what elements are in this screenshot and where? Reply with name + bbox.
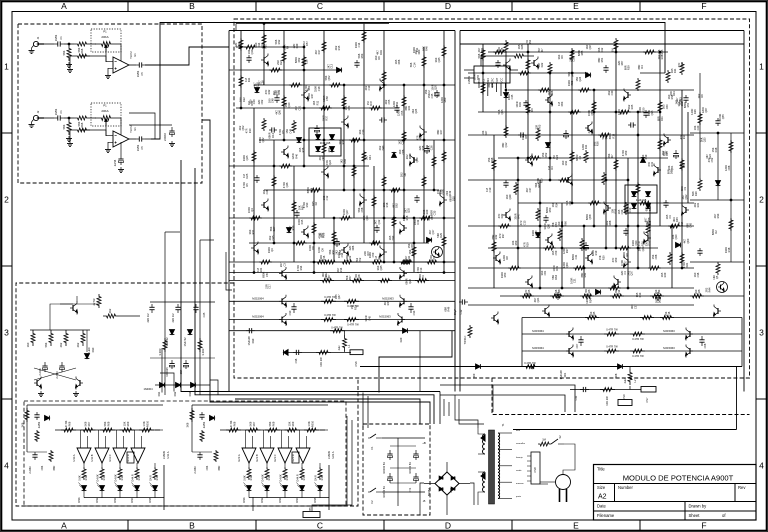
svg-text:R25: R25 — [527, 289, 531, 294]
svg-text:R4: R4 — [640, 65, 644, 69]
svg-text:D09: D09 — [472, 373, 476, 378]
right amp transistor — [647, 235, 649, 241]
svg-text:1000/25: 1000/25 — [165, 367, 169, 377]
svg-text:R22: R22 — [348, 255, 352, 260]
svg-text:U1: U1 — [133, 53, 137, 57]
svg-text:D6: D6 — [403, 173, 407, 177]
svg-text:R08: R08 — [107, 421, 111, 426]
svg-text:R20: R20 — [601, 255, 605, 260]
svg-text:R60: R60 — [443, 97, 447, 102]
svg-text:R67: R67 — [620, 60, 624, 65]
right amp resistor — [602, 172, 606, 185]
svg-text:R13: R13 — [267, 475, 271, 480]
svg-text:R56: R56 — [647, 217, 651, 222]
svg-text:C14: C14 — [412, 62, 416, 67]
wire ch2 out to right amp — [151, 23, 665, 140]
svg-text:1N4148: 1N4148 — [247, 336, 251, 346]
wire ch1 out to left amp — [145, 47, 229, 65]
svg-text:C51: C51 — [265, 272, 269, 277]
svg-text:R06: R06 — [68, 421, 72, 426]
svg-text:R20: R20 — [641, 107, 645, 112]
preamp channel L (J1, C1, R1, P1 20KA, op-amp U1 TL072, C5) — [33, 41, 38, 46]
svg-text:3K6: 3K6 — [186, 422, 190, 427]
svg-text:Q50: Q50 — [534, 230, 538, 235]
svg-text:Drawn by: Drawn by — [689, 504, 708, 509]
left amp capacitor — [296, 210, 298, 213]
svg-text:D30: D30 — [91, 347, 95, 352]
mains plug P2 and connector — [531, 452, 540, 484]
svg-text:R27: R27 — [623, 260, 627, 265]
svg-text:R67: R67 — [436, 92, 440, 97]
svg-text:D18: D18 — [714, 147, 718, 152]
svg-text:LM339: LM339 — [162, 450, 166, 458]
svg-text:R53: R53 — [682, 163, 686, 168]
svg-text:R8: R8 — [505, 256, 509, 260]
svg-text:D52: D52 — [528, 39, 532, 44]
svg-text:Q30: Q30 — [674, 234, 678, 239]
right amp capacitor — [525, 100, 527, 103]
svg-text:BR25A: BR25A — [427, 488, 431, 496]
left amp resistor — [442, 235, 446, 248]
svg-text:D33: D33 — [391, 235, 395, 240]
svg-text:Rev: Rev — [738, 485, 746, 490]
svg-text:Q47: Q47 — [337, 294, 341, 299]
left amp resistor — [339, 216, 352, 220]
svg-text:10000/ 63: 10000/ 63 — [382, 462, 386, 474]
svg-text:22/63: 22/63 — [37, 421, 41, 428]
svg-text:Q25: Q25 — [414, 108, 418, 113]
left amp resistor — [342, 95, 346, 108]
svg-text:0.47R 7W: 0.47R 7W — [606, 328, 618, 332]
left amp wire — [363, 24, 365, 244]
svg-text:D22: D22 — [540, 62, 544, 67]
right amp diode — [536, 233, 541, 238]
svg-text:R11: R11 — [660, 116, 664, 121]
left amp resistor — [389, 188, 402, 192]
svg-text:D19: D19 — [644, 154, 648, 159]
svg-text:1N4148: 1N4148 — [320, 141, 331, 145]
wire preamp rail V- down — [195, 168, 434, 424]
svg-text:D21: D21 — [685, 262, 689, 267]
right amp capacitor — [545, 215, 547, 218]
right amp resistor — [608, 286, 621, 290]
svg-text:C38: C38 — [401, 139, 405, 144]
svg-text:Q60: Q60 — [686, 238, 690, 243]
svg-text:D53: D53 — [560, 101, 564, 106]
svg-text:D40: D40 — [381, 145, 385, 150]
feedback loop wire ch2 — [129, 113, 155, 139]
svg-text:R54: R54 — [588, 298, 592, 303]
right amp resistor — [543, 246, 556, 250]
left amp wire — [229, 69, 339, 71]
svg-text:TL072: TL072 — [129, 51, 133, 59]
svg-text:Q4: Q4 — [250, 208, 254, 212]
svg-text:D61: D61 — [480, 47, 484, 52]
right amp wire — [517, 158, 519, 268]
svg-text:56K: 56K — [77, 47, 81, 52]
svg-text:Q26: Q26 — [408, 278, 412, 283]
svg-text:MJ15063: MJ15063 — [663, 329, 675, 333]
right amp wire — [498, 157, 668, 159]
right amp resistor — [646, 222, 650, 235]
right amp transistor — [627, 92, 629, 98]
svg-text:D66: D66 — [408, 154, 412, 159]
svg-text:D01: D01 — [563, 372, 567, 377]
svg-text:R50: R50 — [503, 272, 507, 277]
svg-text:Q52: Q52 — [327, 75, 331, 80]
capacitor C16 22/16 — [120, 142, 122, 155]
left amp resistor — [282, 95, 286, 108]
right amp output stage MJ15064/MJ15063 with 0.47R 7W emitter resistors — [522, 317, 742, 319]
right amp capacitor — [675, 150, 677, 154]
svg-text:R14: R14 — [120, 475, 124, 480]
svg-text:3.30R: 3.30R — [158, 348, 162, 355]
right amp resistor — [548, 62, 552, 75]
svg-text:C40: C40 — [610, 90, 614, 95]
left amp capacitor — [269, 129, 272, 131]
svg-text:Q37: Q37 — [630, 270, 634, 275]
left amp resistor — [322, 142, 326, 155]
svg-text:G4.R: G4.R — [314, 475, 318, 481]
svg-text:C35: C35 — [432, 210, 436, 215]
svg-text:Filename: Filename — [597, 513, 615, 518]
right amp resistor — [588, 201, 601, 205]
svg-text:C45: C45 — [689, 222, 693, 227]
svg-text:R29: R29 — [663, 272, 667, 277]
right amp wire — [637, 112, 639, 268]
right amp transistor — [607, 205, 609, 211]
svg-text:D08: D08 — [614, 373, 618, 378]
svg-text:R27: R27 — [439, 129, 443, 134]
svg-text:R57: R57 — [348, 275, 352, 280]
svg-text:5.6K: 5.6K — [78, 475, 82, 481]
svg-text:C13: C13 — [628, 207, 632, 212]
left amp resistor — [262, 118, 266, 131]
left amp resistor — [252, 150, 256, 163]
svg-text:Q41: Q41 — [650, 161, 654, 166]
right amp capacitor — [657, 292, 659, 296]
svg-text:20KA: 20KA — [101, 35, 108, 39]
left amp resistor — [382, 70, 386, 83]
svg-text:Number: Number — [618, 485, 633, 490]
left amp wire — [249, 242, 429, 244]
right amp resistor — [558, 228, 562, 241]
right amp capacitor — [518, 134, 521, 136]
protection network 1N4742 / 1N4004 — [164, 232, 166, 395]
svg-text:Q10: Q10 — [287, 102, 291, 107]
left amp diode — [427, 238, 432, 243]
right amp resistor — [658, 138, 662, 151]
svg-text:D38: D38 — [490, 157, 494, 162]
svg-text:2: 2 — [759, 195, 764, 205]
svg-text:Q46: Q46 — [285, 182, 289, 187]
left amp wire — [236, 107, 399, 109]
right amp wire — [615, 44, 617, 248]
left amp wire — [343, 85, 345, 190]
svg-text:TL072: TL072 — [129, 125, 133, 133]
bridge rectifier BR1 BR25A — [435, 472, 459, 495]
svg-text:R34: R34 — [554, 202, 558, 207]
svg-text:C26: C26 — [430, 145, 434, 150]
right amp capacitor — [497, 60, 499, 63]
svg-text:TIP41C: TIP41C — [463, 335, 467, 344]
svg-text:R30: R30 — [640, 241, 644, 246]
left amp resistor — [279, 164, 292, 168]
left amp wire — [403, 85, 405, 218]
svg-text:R65: R65 — [660, 49, 664, 54]
svg-text:R9: R9 — [377, 256, 381, 260]
svg-text:Q56: Q56 — [546, 223, 550, 228]
svg-text:2.2/63: 2.2/63 — [193, 466, 197, 474]
left amp resistor — [372, 195, 376, 208]
svg-text:D25: D25 — [245, 173, 249, 178]
svg-text:B: B — [189, 1, 195, 11]
svg-text:C15: C15 — [522, 220, 526, 225]
svg-text:C5: C5 — [140, 146, 144, 150]
right amp resistor — [618, 110, 631, 114]
svg-text:C55: C55 — [400, 110, 404, 115]
left amp resistor — [312, 222, 316, 235]
svg-text:1: 1 — [4, 62, 9, 72]
svg-text:R51: R51 — [600, 57, 604, 62]
left amp resistor — [352, 165, 356, 178]
svg-text:C1: C1 — [59, 110, 63, 114]
right amp wire — [561, 203, 563, 288]
right amp capacitor — [665, 200, 667, 203]
svg-text:B: B — [189, 521, 195, 531]
right amp resistor — [514, 182, 518, 195]
left amp wire — [253, 108, 255, 272]
right amp transistor — [495, 255, 497, 261]
svg-text:R23: R23 — [347, 105, 351, 110]
svg-text:D9: D9 — [377, 56, 381, 60]
svg-text:4: 4 — [4, 461, 9, 471]
wire protect to buses — [160, 373, 174, 392]
right amp transistor — [527, 279, 529, 285]
left amp resistor — [402, 130, 406, 143]
left amp capacitor — [276, 95, 278, 98]
right amp wire — [605, 135, 607, 248]
svg-text:R25: R25 — [630, 104, 634, 109]
right amp resistor — [492, 240, 496, 253]
svg-text:D19: D19 — [416, 219, 420, 224]
left amp capacitor — [248, 55, 250, 58]
svg-text:R22: R22 — [242, 97, 246, 102]
svg-text:R26: R26 — [550, 90, 554, 95]
right amp resistor — [592, 100, 596, 113]
left amp diode — [255, 88, 260, 93]
right amp resistor — [573, 266, 586, 270]
svg-text:R53: R53 — [360, 53, 364, 58]
svg-text:R40: R40 — [294, 153, 298, 158]
svg-text:C64: C64 — [205, 465, 209, 470]
right amp wire — [659, 52, 661, 226]
svg-text:CN6: CN6 — [354, 361, 358, 367]
svg-text:3: 3 — [4, 328, 9, 338]
left amp output stage MJ15064/MJ15063 with 0.47R 7W emitter resistors — [229, 280, 455, 282]
svg-text:20KA: 20KA — [101, 109, 108, 113]
svg-text:2: 2 — [4, 195, 9, 205]
svg-text:D11: D11 — [584, 144, 588, 149]
right amp wire — [468, 134, 694, 136]
svg-text:10/63: 10/63 — [136, 70, 140, 77]
svg-text:22R 1/2: 22R 1/2 — [146, 313, 150, 323]
left amp resistor — [244, 45, 257, 49]
left amp transistor — [263, 202, 265, 208]
right amp resistor — [518, 71, 531, 75]
svg-text:10/63: 10/63 — [54, 34, 58, 41]
svg-text:3: 3 — [759, 328, 764, 338]
svg-text:C33: C33 — [412, 310, 416, 315]
svg-text:A2: A2 — [598, 494, 607, 501]
right amp wire — [527, 44, 529, 158]
right amp transistor — [547, 97, 549, 103]
svg-text:R19: R19 — [594, 250, 598, 255]
left amp resistor — [422, 55, 426, 68]
right amp resistor — [598, 133, 611, 137]
svg-text:R37: R37 — [325, 115, 329, 120]
svg-text:2uH: 2uH — [623, 378, 627, 383]
svg-text:LM339: LM339 — [327, 450, 331, 458]
svg-text:Q26: Q26 — [697, 289, 701, 294]
svg-text:marrom: marrom — [516, 482, 524, 485]
left amp resistor — [324, 260, 337, 264]
svg-text:U1: U1 — [133, 127, 137, 131]
svg-text:R6: R6 — [524, 135, 528, 139]
svg-text:R34: R34 — [299, 265, 303, 270]
right amp resistor — [636, 182, 640, 195]
svg-text:C07: C07 — [575, 343, 579, 348]
svg-text:68R: 68R — [217, 465, 221, 470]
svg-text:R59: R59 — [514, 240, 518, 245]
svg-text:D27: D27 — [411, 249, 415, 254]
right amp transistor — [657, 167, 659, 173]
svg-text:10/63: 10/63 — [54, 108, 58, 115]
svg-text:Date: Date — [597, 504, 607, 509]
svg-text:R15: R15 — [337, 45, 341, 50]
svg-text:68R: 68R — [52, 465, 56, 470]
svg-text:1N4148: 1N4148 — [636, 198, 647, 202]
left amp transistor — [323, 169, 325, 175]
svg-text:CPC: CPC — [491, 78, 495, 84]
svg-text:R9: R9 — [286, 45, 290, 49]
svg-text:C20: C20 — [696, 125, 700, 130]
svg-text:D32: D32 — [648, 240, 652, 245]
right amp wire — [468, 72, 588, 74]
svg-text:D: D — [445, 1, 451, 11]
svg-text:Q12: Q12 — [377, 219, 381, 224]
svg-text:U21:C: U21:C — [273, 454, 277, 461]
left amp resistor — [272, 175, 276, 188]
svg-text:Q25: Q25 — [271, 235, 275, 240]
svg-text:0.47R 7W: 0.47R 7W — [606, 345, 618, 349]
svg-text:D13: D13 — [638, 292, 642, 297]
right amp wire — [539, 180, 541, 288]
svg-text:C55: C55 — [305, 59, 309, 64]
right amp capacitor — [605, 65, 607, 68]
svg-text:C: C — [317, 1, 323, 11]
svg-text:D17: D17 — [317, 49, 321, 54]
svg-text:D52: D52 — [297, 57, 301, 62]
wire preamp rail V+ down — [181, 160, 440, 392]
svg-text:MJ15064: MJ15064 — [532, 346, 544, 350]
left amp resistor — [432, 155, 436, 168]
svg-text:G4.6K: G4.6K — [261, 474, 265, 482]
right amp resistor — [568, 110, 581, 114]
svg-text:R31: R31 — [395, 101, 399, 106]
svg-text:DM1: DM1 — [242, 497, 246, 503]
left amp transistor — [343, 119, 345, 125]
svg-text:R11: R11 — [315, 100, 319, 105]
left amp transistor — [263, 57, 265, 63]
svg-text:56K: 56K — [103, 421, 107, 426]
svg-text:C68: C68 — [727, 165, 731, 170]
svg-text:0.47R 7W: 0.47R 7W — [347, 322, 359, 326]
right amp circled transistor U7 — [717, 282, 728, 293]
left amp resistor — [322, 40, 326, 53]
svg-text:R30: R30 — [250, 100, 254, 105]
left amp resistor — [259, 260, 272, 264]
right amp wire — [468, 267, 694, 269]
left amp transistor — [403, 225, 405, 231]
left amp transistor — [363, 197, 365, 203]
svg-text:R010: R010 — [146, 420, 150, 427]
svg-text:D56: D56 — [397, 59, 401, 64]
svg-text:1N4742: 1N4742 — [183, 337, 187, 347]
left amp resistor — [442, 45, 446, 58]
left amp capacitor — [426, 145, 428, 149]
left amp output corner wire — [379, 331, 452, 393]
svg-text:D33: D33 — [277, 89, 281, 94]
right amp wire — [571, 52, 573, 203]
svg-text:220/16: 220/16 — [163, 132, 167, 140]
svg-text:D11: D11 — [673, 68, 677, 73]
wire top long runs — [235, 24, 237, 31]
svg-text:R010: R010 — [311, 420, 315, 427]
svg-text:C18: C18 — [317, 86, 321, 91]
svg-text:R18: R18 — [385, 202, 389, 207]
svg-text:R68: R68 — [580, 50, 584, 55]
svg-text:R41: R41 — [583, 272, 587, 277]
right amp resistor — [624, 202, 628, 215]
left amp resistor — [302, 55, 306, 68]
svg-text:R44: R44 — [708, 287, 712, 292]
left amp wire — [283, 31, 285, 141]
right amp resistor — [680, 158, 684, 171]
svg-text:10/63: 10/63 — [136, 144, 140, 151]
svg-text:VCC: VCC — [500, 78, 504, 84]
right amp pre-driver resistor row — [500, 295, 744, 297]
right amp wire — [478, 111, 658, 113]
svg-text:R47: R47 — [310, 93, 314, 98]
left amp resistor — [249, 216, 262, 220]
svg-text:D14: D14 — [680, 221, 684, 226]
svg-text:U21:A: U21:A — [237, 454, 241, 461]
right amp resistor — [526, 102, 530, 115]
svg-text:D5: D5 — [281, 130, 285, 134]
svg-text:C67: C67 — [410, 243, 414, 248]
svg-text:Size: Size — [597, 485, 606, 490]
left amp transistor — [283, 149, 285, 155]
svg-text:C68: C68 — [401, 149, 405, 154]
svg-text:R42: R42 — [267, 89, 271, 94]
bottom connector CN2 — [303, 512, 320, 518]
wire bus lower — [235, 399, 420, 424]
left amp resistor — [422, 175, 426, 188]
svg-text:47.6K: 47.6K — [64, 420, 68, 427]
svg-text:MJ15064: MJ15064 — [252, 297, 264, 301]
svg-text:C48: C48 — [620, 109, 624, 114]
